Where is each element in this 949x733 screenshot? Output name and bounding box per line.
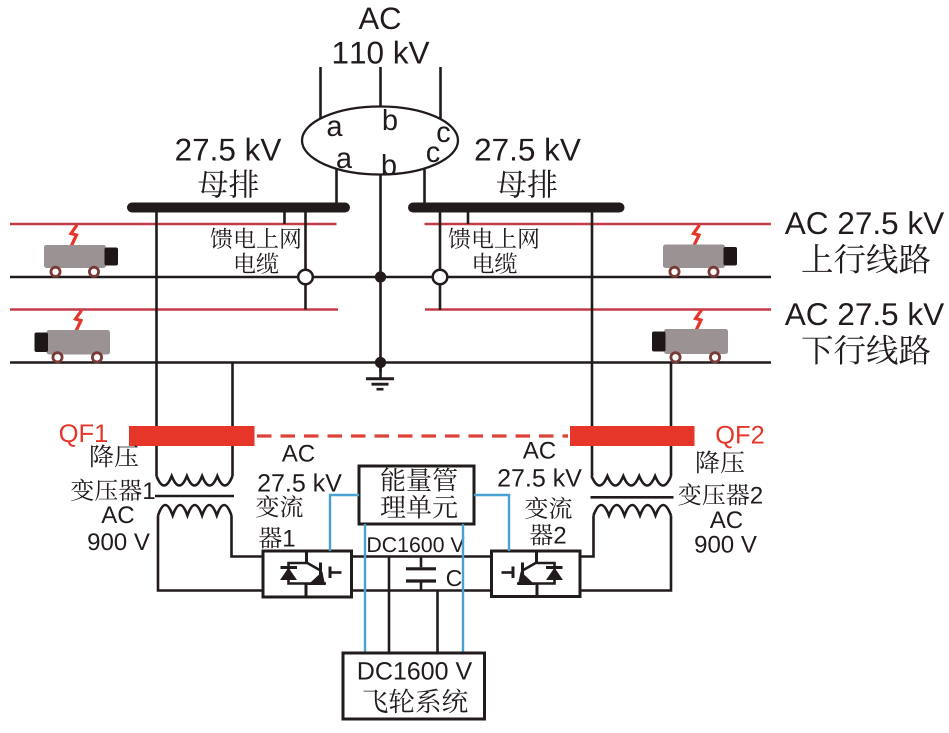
wire EMU to flywheel left (blue) bbox=[364, 524, 366, 653]
wire catenary down-line left segment bbox=[10, 308, 338, 311]
wire right feeder cable upper bbox=[439, 212, 442, 270]
capacitor C plate top bbox=[406, 567, 436, 570]
wire left feeder cable upper bbox=[304, 212, 307, 270]
transformer T1 primary winding bbox=[157, 476, 233, 486]
train lower-right bbox=[664, 329, 728, 354]
node b primary bbox=[384, 109, 397, 130]
label QF1 bbox=[60, 424, 107, 447]
label DC1600V bus bbox=[368, 537, 464, 552]
wire right feeder cable lower bbox=[439, 285, 442, 311]
label left 27.5 kV bbox=[176, 138, 281, 161]
wire QF1-QF2 dashed tie bbox=[257, 434, 568, 437]
label converter2 bianliu bbox=[525, 497, 571, 519]
EMU label line1 bbox=[381, 467, 457, 491]
wire up rail bbox=[10, 276, 771, 279]
train upper-left bbox=[44, 245, 106, 268]
wire phase b feeder top bbox=[379, 67, 382, 107]
label T2 line1 bbox=[697, 450, 744, 473]
wire T1 sec left to converter1 bottom bbox=[158, 516, 263, 591]
transformer T2 primary winding bbox=[592, 476, 672, 486]
capacitor C plate bottom bbox=[406, 579, 436, 582]
busbar right 27.5kV bbox=[408, 203, 625, 213]
transformer T2 core bbox=[591, 496, 674, 499]
label T1 900V bbox=[88, 533, 150, 550]
converter U1 IGBT symbol bbox=[281, 551, 342, 597]
wire c to right busbar bbox=[423, 170, 426, 205]
converter U2 IGBT symbol bbox=[502, 551, 563, 597]
label T2 900V bbox=[695, 536, 757, 553]
label converter1 AC bbox=[282, 445, 314, 462]
label right feeder cable line1 bbox=[449, 228, 539, 249]
wire b neutral down bbox=[379, 175, 382, 373]
wire left feeder to up catenary bbox=[283, 212, 286, 224]
wire busbar to QF2 bbox=[591, 212, 594, 427]
label C bbox=[447, 570, 462, 586]
label AC 27.5 kV down bbox=[785, 302, 944, 325]
train upper-right bbox=[663, 245, 725, 269]
breaker QF1 bbox=[129, 426, 255, 446]
node insulator right bbox=[433, 270, 448, 285]
label converter1 bianliu bbox=[256, 495, 302, 517]
wire QF2 to T2 primary right bbox=[670, 446, 673, 476]
node insulator left bbox=[298, 270, 313, 285]
node c primary bbox=[437, 126, 450, 142]
wire busbar to QF1 bbox=[155, 212, 158, 427]
converter U2 box bbox=[492, 551, 581, 597]
label converter2 qi2 bbox=[530, 524, 565, 546]
capacitor C lead bottom bbox=[420, 583, 423, 591]
flywheel box bbox=[343, 653, 485, 719]
EMU box bbox=[359, 466, 474, 524]
label converter2 27.5kV bbox=[498, 468, 581, 486]
junction dot up rail bbox=[375, 271, 386, 282]
EMU label line2 bbox=[381, 495, 457, 519]
label T1 line2 bbox=[71, 479, 154, 501]
label right 27.5 kV bbox=[476, 138, 581, 161]
label converter1 qi1 bbox=[259, 527, 295, 549]
wire down-rail to QF1 bbox=[231, 363, 234, 428]
label right busbar bbox=[497, 170, 557, 198]
node b secondary bbox=[383, 154, 396, 175]
node a secondary bbox=[337, 152, 352, 168]
wire DC- to flywheel bbox=[436, 591, 439, 654]
label AC 110 kV source bbox=[359, 7, 401, 29]
train lower-left lightning bbox=[76, 311, 82, 332]
train lower-left bbox=[47, 330, 111, 355]
node c secondary bbox=[427, 146, 440, 162]
label T2 line2 bbox=[679, 483, 762, 505]
junction dot down rail bbox=[375, 357, 386, 368]
label up line bbox=[802, 244, 930, 274]
transformer T1 core bbox=[155, 495, 234, 498]
flywheel label line2 bbox=[364, 689, 468, 714]
transformer T2 secondary winding bbox=[594, 505, 672, 516]
wire down-rail to QF2 bbox=[670, 363, 673, 428]
converter U1 box bbox=[263, 551, 352, 597]
wire QF1 to T1 primary right bbox=[231, 446, 234, 476]
label left feeder cable line2 bbox=[236, 253, 278, 274]
wire T2 sec right to converter2 bottom bbox=[580, 516, 671, 591]
label T2 AC bbox=[710, 511, 742, 528]
wire right feeder to up catenary bbox=[467, 212, 470, 224]
wire EMU to converter1 (blue) bbox=[330, 495, 359, 551]
wire QF1 to T1 primary left bbox=[155, 446, 158, 476]
wire DC bus top bbox=[352, 555, 492, 558]
train upper-right lightning bbox=[694, 225, 700, 246]
label T1 AC bbox=[101, 506, 133, 523]
wire EMU to flywheel right (blue) bbox=[462, 524, 464, 653]
flywheel label line1 bbox=[359, 662, 472, 680]
label left busbar bbox=[198, 170, 258, 198]
label left feeder cable line1 bbox=[211, 228, 301, 249]
label right feeder cable line2 bbox=[474, 253, 516, 274]
label converter2 AC bbox=[523, 442, 555, 459]
label down line bbox=[802, 335, 930, 365]
label T1 line1 bbox=[91, 444, 138, 467]
wire left feeder cable lower bbox=[304, 285, 307, 310]
wire EMU to converter2 (blue) bbox=[474, 495, 509, 551]
label converter1 27.5kV bbox=[258, 473, 341, 491]
busbar left 27.5kV bbox=[127, 203, 350, 213]
wire catenary up-line right segment bbox=[425, 223, 772, 226]
wire DC bus bottom bbox=[352, 589, 492, 592]
wire a to left busbar bbox=[335, 169, 338, 205]
wire to ground bbox=[379, 363, 382, 378]
transformer T1 secondary winding bbox=[158, 505, 232, 516]
wire QF2 to T2 primary left bbox=[591, 446, 594, 476]
wire down rail bbox=[10, 361, 771, 364]
wire T1 sec right to converter1 top bbox=[232, 516, 264, 557]
wire DC+ to flywheel bbox=[388, 557, 391, 654]
wire T2 sec left to converter2 top bbox=[580, 516, 594, 557]
train lower-right lightning bbox=[696, 310, 702, 331]
label QF2 bbox=[716, 426, 763, 449]
wire catenary down-line right segment bbox=[425, 308, 771, 311]
wire phase a feeder top bbox=[319, 67, 322, 119]
capacitor C lead top bbox=[420, 557, 423, 568]
ground bbox=[366, 377, 394, 380]
train upper-left lightning bbox=[71, 225, 77, 246]
node a primary bbox=[328, 120, 343, 136]
label AC 27.5 kV up bbox=[785, 211, 944, 234]
wire catenary up-line left segment bbox=[10, 223, 337, 226]
breaker QF2 bbox=[570, 426, 695, 446]
wire phase c feeder top bbox=[439, 67, 442, 119]
transformer T0 110kV ellipse bbox=[302, 107, 458, 175]
